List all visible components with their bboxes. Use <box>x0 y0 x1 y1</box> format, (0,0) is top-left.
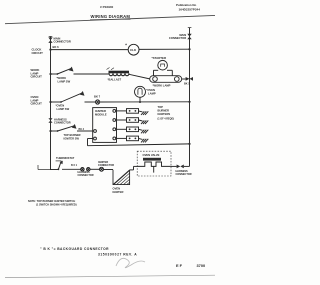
ground igniter 4 <box>139 138 149 142</box>
svg-text:BK 6: BK 6 <box>53 45 60 49</box>
wire to igniter connector <box>90 168 99 170</box>
node BK 5 label <box>184 83 190 86</box>
oven valve coils <box>137 162 171 173</box>
harness connector pair <box>81 168 91 172</box>
work lamp label <box>153 84 171 88</box>
wire module to igniter 3 <box>117 128 127 130</box>
module pin R3 <box>113 128 116 131</box>
header publication number text <box>176 3 200 11</box>
igniter connector <box>100 167 104 171</box>
thermostat label <box>56 156 75 160</box>
clock CLK <box>125 43 139 56</box>
svg-text:TOP: TOP <box>158 105 164 109</box>
work lamp fluorescent tube <box>150 76 182 83</box>
top burner igniters label <box>158 105 175 120</box>
oven lamp switch SW2 <box>60 91 84 103</box>
junction left rail / oven wire <box>49 101 51 103</box>
clock circuit label <box>32 48 44 55</box>
igniter connector label <box>98 161 114 167</box>
top burner igniter 4 <box>127 136 139 141</box>
junction left rail / igniter switch wire <box>49 130 51 132</box>
svg-text:MODULE: MODULE <box>95 112 107 116</box>
svg-text:THERMOSTAT: THERMOSTAT <box>56 156 75 160</box>
top burner igniter 2 <box>127 118 139 123</box>
work lamp switch label <box>57 76 71 83</box>
footnote backguard connector <box>40 247 109 251</box>
work lamp switch SW1 <box>56 67 73 75</box>
wire ballast to work lamp <box>129 74 150 79</box>
ballast coil <box>107 68 130 76</box>
wire module to igniter 2 <box>117 119 127 121</box>
svg-text:E F: E F <box>176 263 183 268</box>
junction oven lamp stem <box>139 101 141 103</box>
right rail top tick <box>188 27 192 29</box>
svg-text:(1 OF 4 REQD): (1 OF 4 REQD) <box>158 118 175 121</box>
svg-text:*BALLAST: *BALLAST <box>108 77 122 81</box>
starter bracket <box>154 70 173 75</box>
svg-text:CONNECTOR: CONNECTOR <box>176 173 192 176</box>
top burner igniter 3 <box>127 127 139 132</box>
oven lamp switch label <box>56 104 70 111</box>
harness connector (left rail) <box>48 118 52 122</box>
wire clock circuit top <box>51 49 129 51</box>
ground igniter 1 <box>139 111 149 115</box>
harness connector label (bottom) <box>78 171 94 177</box>
top burner igniter switch label <box>64 133 81 140</box>
module pin R1 <box>113 110 116 113</box>
junction left rail / clock wire <box>49 49 51 51</box>
oven lamp circuit label <box>31 95 43 106</box>
oven valve label <box>143 153 160 157</box>
wire switch to module <box>77 130 93 132</box>
igniter module U1 <box>93 108 117 143</box>
note text <box>28 199 77 207</box>
header rule (skewed) <box>5 15 215 23</box>
module pin L1 <box>94 130 97 133</box>
ballast label <box>108 77 122 81</box>
header model number text <box>100 5 114 9</box>
thermostat switch <box>56 161 63 171</box>
wire connector to oven lamp <box>100 101 190 103</box>
module pin R2 <box>113 119 116 122</box>
node BK 7 label <box>94 94 101 98</box>
wire thermostat to harness connectors <box>62 168 81 170</box>
svg-text:BURNER: BURNER <box>158 109 170 113</box>
wire oven igniter to oven valve <box>130 166 138 170</box>
top burner igniter 1 <box>127 109 139 114</box>
main connector (right) label <box>169 33 186 40</box>
svg-text:*WORK LAMP: *WORK LAMP <box>153 84 171 88</box>
oven valve (dashed enclosure) <box>137 151 171 176</box>
wire switch to connector <box>85 101 96 103</box>
svg-text:IGNITER: IGNITER <box>113 190 124 194</box>
top burner igniter switch SW3 <box>57 124 77 132</box>
junction right rail / clock wire <box>188 48 190 50</box>
work lamp circuit label <box>31 68 43 79</box>
wire connector to right rail <box>184 165 190 167</box>
wire work lamp to right connector <box>182 78 186 80</box>
svg-text:3150390027 REV. A: 3150390027 REV. A <box>98 252 137 256</box>
backguard connector BK 5 (right rail) <box>186 77 193 81</box>
svg-text:CIRCUIT: CIRCUIT <box>32 51 44 55</box>
svg-text:WIRING DIAGRAM: WIRING DIAGRAM <box>91 14 131 19</box>
wire module to igniter 4 <box>117 137 127 139</box>
node BK 4 label <box>79 128 85 131</box>
svg-text:CONNECTOR: CONNECTOR <box>54 39 71 43</box>
svg-text:164D2257P244: 164D2257P244 <box>179 8 201 12</box>
svg-text:IGNITER SW: IGNITER SW <box>64 136 80 140</box>
svg-text:# P16940: # P16940 <box>100 5 114 9</box>
footnote part number <box>98 252 137 256</box>
oven valve bar <box>143 158 161 161</box>
wire igniter connector to oven igniter <box>104 169 114 171</box>
node B 6 1 label <box>71 164 78 167</box>
junction left rail / work wire <box>49 73 51 75</box>
wire oven lamp from rail <box>51 101 62 103</box>
wire switch to ballast <box>74 73 109 75</box>
bottom rule <box>5 275 215 277</box>
wire work lamp from rail <box>51 73 58 75</box>
main connector (right) symbol <box>187 34 191 40</box>
svg-text:(1 SWITCH SHOWN 4 REQUIRED): (1 SWITCH SHOWN 4 REQUIRED) <box>36 203 77 207</box>
module pin L2 <box>94 137 97 140</box>
node BK 6 label <box>53 45 60 49</box>
main connector (left) symbol BK 6 <box>48 37 52 43</box>
wire module to igniter 1 <box>117 110 127 112</box>
oven igniter (hot surface igniter) <box>113 170 130 185</box>
harness connector (oven valve out) <box>177 165 184 169</box>
svg-text:CONNECTOR: CONNECTOR <box>54 120 71 124</box>
left rail top tick <box>49 36 53 38</box>
starter S1 <box>152 56 168 70</box>
oven lamp <box>135 86 146 102</box>
module pin R4 <box>113 137 116 140</box>
stamp scribble <box>116 258 145 267</box>
title WIRING DIAGRAM <box>91 14 131 19</box>
svg-text:B 6 1: B 6 1 <box>71 164 78 167</box>
svg-text:LAMP: LAMP <box>148 91 156 95</box>
svg-text:CONNECTOR: CONNECTOR <box>78 174 94 177</box>
svg-text:CONNECTOR: CONNECTOR <box>169 36 186 40</box>
wire clock to right rail <box>139 48 190 50</box>
stamp mark <box>176 263 205 268</box>
svg-text:" B K "= BACKGUARD CONNECTOR: " B K "= BACKGUARD CONNECTOR <box>40 247 109 251</box>
wire oven valve to harness connector <box>171 165 177 167</box>
junction right rail / oven wire <box>188 101 190 103</box>
svg-text:BK 7: BK 7 <box>94 94 101 98</box>
svg-text:IGNITERS: IGNITERS <box>158 112 171 116</box>
harness connector label <box>54 117 71 124</box>
junction right rail / module return <box>188 143 190 145</box>
svg-text:CONNECTOR: CONNECTOR <box>98 164 114 167</box>
right rail N <box>189 28 191 167</box>
ground igniter 2 <box>139 120 149 124</box>
svg-text:Publication No: Publication No <box>176 3 196 7</box>
svg-text:BK 5: BK 5 <box>184 83 190 86</box>
wire module return to right rail <box>88 139 190 146</box>
title underline <box>90 18 131 20</box>
svg-text:OVEN VALVE: OVEN VALVE <box>143 153 160 157</box>
ground igniter 3 <box>139 129 149 133</box>
svg-text:CIRCUIT: CIRCUIT <box>31 75 43 79</box>
svg-text:CIRCUIT: CIRCUIT <box>31 102 43 106</box>
svg-text:NOTE: TOP BURNER IGNITER SWITC: NOTE: TOP BURNER IGNITER SWITCH <box>28 199 75 203</box>
main connector (left) label <box>54 36 71 43</box>
wire igniter switch from rail <box>51 130 58 132</box>
wire left rail corner to thermostat <box>38 165 58 170</box>
left rail L1 <box>50 37 52 171</box>
oven igniter label <box>113 187 124 194</box>
svg-text:LAMP SW: LAMP SW <box>57 107 70 111</box>
svg-text:CLK: CLK <box>130 48 137 52</box>
svg-text:3700: 3700 <box>197 263 206 268</box>
svg-text:LAMP SW: LAMP SW <box>58 79 71 83</box>
harness connector label (right) <box>176 170 192 176</box>
svg-text:*STARTER: *STARTER <box>152 56 167 60</box>
backguard connector BK 7 <box>96 100 100 104</box>
oven lamp label <box>146 88 156 95</box>
